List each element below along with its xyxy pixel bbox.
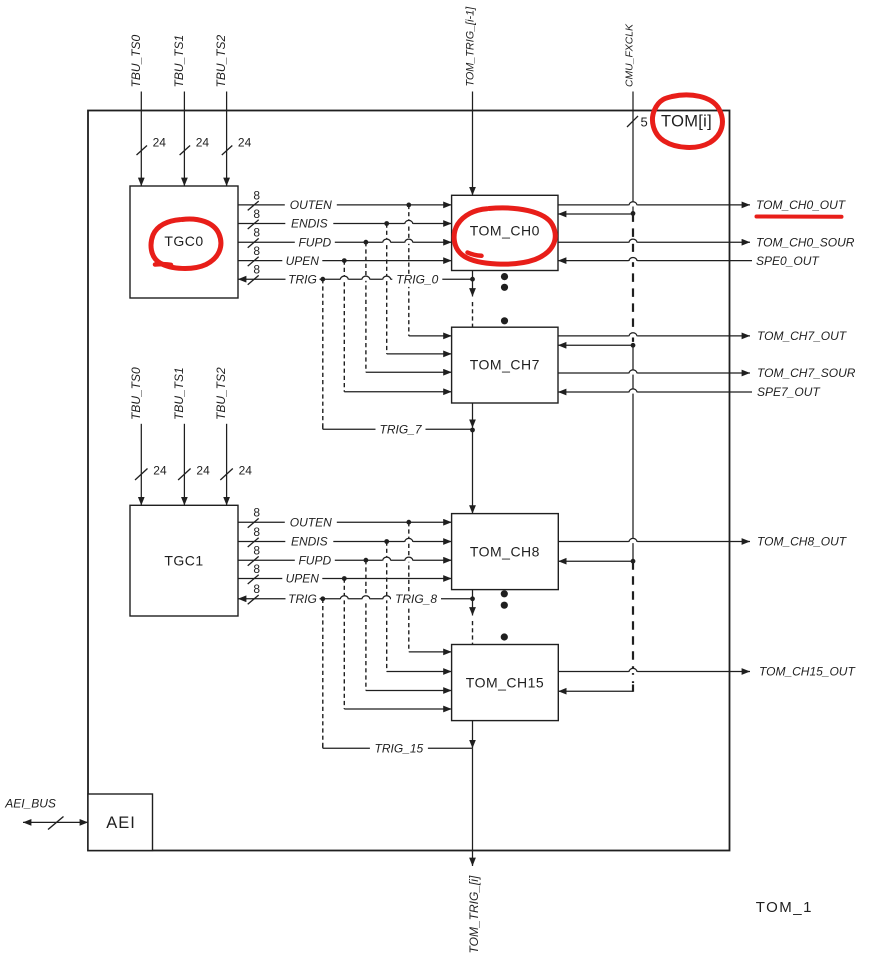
svg-text:SPE0_OUT: SPE0_OUT [756,254,820,268]
svg-text:5: 5 [641,115,648,130]
svg-text:OUTEN: OUTEN [290,515,332,529]
svg-text:CMU_FXCLK: CMU_FXCLK [624,23,635,87]
svg-text:24: 24 [238,136,252,150]
svg-text:24: 24 [153,464,167,478]
svg-text:8: 8 [253,263,260,277]
svg-text:AEI_BUS: AEI_BUS [4,797,56,811]
svg-text:24: 24 [196,136,210,150]
svg-text:24: 24 [196,464,210,478]
svg-text:24: 24 [153,136,167,150]
svg-text:TGC1: TGC1 [164,553,203,569]
svg-text:TRIG_15: TRIG_15 [375,742,424,756]
svg-text:TOM_CH0_SOUR: TOM_CH0_SOUR [756,235,855,249]
svg-text:TOM_TRIG_[i-1]: TOM_TRIG_[i-1] [465,6,477,87]
svg-text:TOM_CH15_OUT: TOM_CH15_OUT [759,665,856,679]
svg-text:24: 24 [239,464,253,478]
svg-text:SPE7_OUT: SPE7_OUT [757,385,821,399]
svg-text:TRIG: TRIG [288,272,317,286]
svg-text:TBU_TS1: TBU_TS1 [172,367,186,420]
svg-text:8: 8 [253,244,260,258]
svg-text:8: 8 [253,207,260,221]
svg-text:8: 8 [253,525,260,539]
svg-text:8: 8 [253,506,260,520]
svg-text:TRIG_0: TRIG_0 [396,272,438,286]
svg-text:TOM_CH7_SOUR: TOM_CH7_SOUR [757,366,856,380]
svg-text:TOM_TRIG_[i]: TOM_TRIG_[i] [467,875,481,953]
svg-text:8: 8 [253,226,260,240]
svg-text:TOM[i]: TOM[i] [661,113,712,131]
svg-text:UPEN: UPEN [286,572,320,586]
svg-text:FUPD: FUPD [298,235,331,249]
svg-text:TGC0: TGC0 [164,233,203,249]
svg-text:TOM_CH0_OUT: TOM_CH0_OUT [756,198,847,212]
svg-text:TOM_CH0: TOM_CH0 [470,223,540,239]
svg-text:TOM_CH8_OUT: TOM_CH8_OUT [757,535,848,549]
svg-text:TOM_1: TOM_1 [756,899,813,916]
svg-text:8: 8 [253,582,260,596]
svg-text:TBU_TS2: TBU_TS2 [214,34,228,87]
svg-text:TBU_TS0: TBU_TS0 [129,367,143,420]
svg-text:ENDIS: ENDIS [291,217,328,231]
svg-text:TRIG_8: TRIG_8 [395,592,437,606]
svg-text:TOM_CH7_OUT: TOM_CH7_OUT [757,329,848,343]
svg-text:TOM_CH15: TOM_CH15 [466,674,544,690]
svg-text:TBU_TS2: TBU_TS2 [214,367,228,420]
svg-text:TRIG_7: TRIG_7 [379,423,422,437]
svg-text:TRIG: TRIG [288,592,317,606]
svg-text:TBU_TS1: TBU_TS1 [172,35,186,88]
svg-text:AEI: AEI [106,814,136,832]
svg-text:FUPD: FUPD [298,553,331,567]
svg-text:UPEN: UPEN [286,254,320,268]
svg-text:TOM_CH8: TOM_CH8 [470,543,540,559]
svg-text:TBU_TS0: TBU_TS0 [129,34,143,87]
svg-text:ENDIS: ENDIS [291,535,328,549]
svg-text:8: 8 [253,544,260,558]
svg-text:8: 8 [253,188,260,202]
svg-text:TOM_CH7: TOM_CH7 [470,357,540,373]
svg-text:OUTEN: OUTEN [290,198,332,212]
svg-text:8: 8 [253,562,260,576]
